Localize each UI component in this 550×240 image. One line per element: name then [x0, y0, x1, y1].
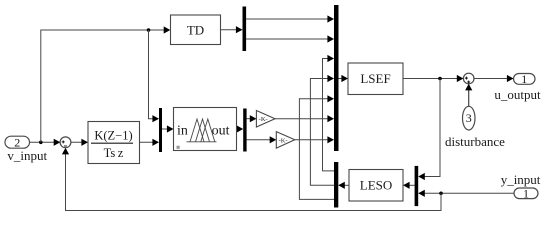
svg-text:LESO: LESO	[360, 178, 393, 193]
svg-text:u_output: u_output	[494, 87, 541, 102]
svg-text:v_input: v_input	[7, 148, 47, 163]
svg-text:Ts z: Ts z	[104, 146, 124, 160]
svg-text:1: 1	[521, 72, 527, 86]
svg-text:-K-: -K-	[279, 137, 288, 144]
svg-text:TD: TD	[187, 22, 204, 37]
svg-text:y_input: y_input	[501, 172, 541, 187]
svg-text:in: in	[177, 123, 188, 138]
svg-text:3: 3	[466, 111, 472, 125]
svg-text:disturbance: disturbance	[445, 134, 505, 149]
svg-text:-K-: -K-	[259, 116, 268, 123]
svg-text:LSEF: LSEF	[360, 71, 390, 86]
svg-text:K(Z−1): K(Z−1)	[94, 129, 132, 143]
svg-text:out: out	[212, 123, 230, 138]
svg-text:1: 1	[523, 186, 529, 200]
